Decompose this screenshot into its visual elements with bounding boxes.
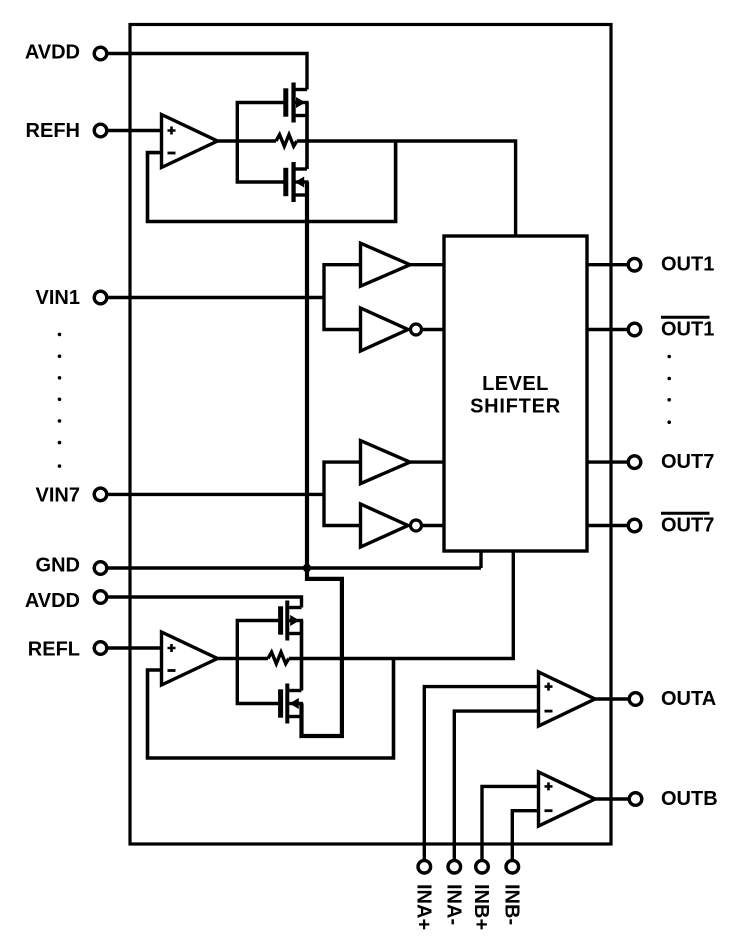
wire REFL to op-amp U2 + input bbox=[108, 646, 162, 649]
wire AVDD to PMOS drain bbox=[108, 54, 308, 90]
transistor Q3 (PMOS, REFL buffer) bbox=[278, 601, 303, 641]
wire U2 gate drive to Q3/Q4 gates bbox=[237, 621, 278, 704]
wire REFL buffer output node vertical bbox=[300, 621, 304, 691]
op-amp U2 (REFL buffer) bbox=[162, 632, 218, 685]
pin OUT1-bar bbox=[587, 317, 714, 340]
junction dot GND node bbox=[303, 564, 311, 572]
svg-text:OUTB: OUTB bbox=[661, 788, 718, 810]
pin VIN7 bbox=[36, 485, 107, 507]
svg-text:VIN1: VIN1 bbox=[36, 287, 80, 309]
pin INB- bbox=[501, 860, 523, 925]
wire B1 output to level shifter bbox=[410, 263, 444, 266]
wire REFH to op-amp U1 + input bbox=[108, 129, 162, 132]
svg-text:INA-: INA- bbox=[443, 884, 465, 925]
wire GND to Q4 source bbox=[302, 568, 342, 736]
pin INA+ bbox=[413, 860, 435, 930]
wire U2 feedback loop bbox=[148, 659, 394, 759]
pin INA- bbox=[443, 860, 465, 925]
pin OUT7 bbox=[587, 451, 714, 473]
svg-text:INA+: INA+ bbox=[413, 884, 435, 930]
pin INB+ bbox=[470, 860, 492, 930]
inverter B2 (VIN1 inverting) bbox=[361, 308, 422, 351]
pin REFL bbox=[28, 639, 107, 661]
pin AVDD (top) bbox=[25, 42, 107, 64]
svg-text:INB-: INB- bbox=[501, 884, 523, 925]
pin VIN1 bbox=[36, 287, 107, 309]
svg-text:AVDD: AVDD bbox=[25, 42, 80, 64]
resistor R1 bbox=[276, 135, 297, 147]
svg-text:OUT7: OUT7 bbox=[661, 515, 714, 537]
wire U2 output to resistor R2 bbox=[218, 657, 269, 660]
svg-text:GND: GND bbox=[36, 554, 80, 576]
pin OUTB bbox=[595, 788, 718, 810]
wire U1 output to resistor R1 bbox=[218, 139, 277, 142]
wire GND rail bbox=[108, 566, 482, 569]
buffer B3 (VIN7 non-inverting) bbox=[361, 441, 411, 484]
wire VIN1 buffer input tee bbox=[324, 265, 360, 330]
svg-text:VIN7: VIN7 bbox=[36, 485, 80, 507]
wire U1 gate drive to Q1/Q2 gates bbox=[237, 103, 283, 183]
svg-text:OUTA: OUTA bbox=[661, 688, 716, 710]
op-amp U3 (OUTA) bbox=[539, 672, 596, 726]
svg-text:LEVEL: LEVEL bbox=[482, 373, 549, 395]
wire R2 node to level shifter bottom bbox=[289, 551, 514, 659]
transistor Q4 (NMOS, REFL buffer) bbox=[278, 684, 303, 724]
resistor R2 bbox=[268, 652, 289, 664]
svg-text:REFH: REFH bbox=[26, 120, 80, 142]
wire VIN7 to buffer inputs bbox=[108, 493, 325, 496]
pin REFH bbox=[26, 120, 107, 142]
svg-text:INB+: INB+ bbox=[470, 884, 492, 930]
svg-text:SHIFTER: SHIFTER bbox=[470, 396, 561, 418]
wire B2 output to level shifter bbox=[422, 328, 445, 331]
pin OUTA bbox=[595, 688, 716, 710]
wire U1 feedback loop bbox=[148, 141, 396, 222]
buffer B1 (VIN1 non-inverting) bbox=[361, 243, 411, 286]
wire B4 output to level shifter bbox=[422, 524, 445, 527]
inverter B4 (VIN7 inverting) bbox=[361, 504, 422, 547]
svg-text:OUT7: OUT7 bbox=[661, 451, 714, 473]
wire INA- to U3 - input bbox=[454, 711, 538, 860]
wire INB+ to U4 + input bbox=[482, 786, 539, 860]
pin OUT1 bbox=[587, 254, 714, 276]
op-amp U1 (REFH buffer) bbox=[162, 115, 218, 168]
level shifter block bbox=[444, 236, 587, 551]
pin GND bbox=[36, 554, 107, 576]
ellipsis dots (left, VIN1..VIN7) bbox=[58, 333, 62, 468]
pin AVDD (bottom) bbox=[25, 590, 107, 612]
IC outer block border bbox=[130, 25, 611, 845]
svg-text:REFL: REFL bbox=[28, 639, 80, 661]
wire REFH buffer output node vertical bbox=[305, 103, 309, 569]
wire VIN1 to buffer inputs bbox=[108, 296, 325, 299]
wire AVDD to Q3 drain bbox=[108, 597, 302, 608]
wire VIN7 buffer input tee bbox=[324, 462, 360, 525]
wire GND to level shifter bottom bbox=[479, 551, 482, 568]
pin OUT7-bar bbox=[587, 513, 714, 536]
svg-text:AVDD: AVDD bbox=[25, 590, 80, 612]
svg-text:OUT1: OUT1 bbox=[661, 319, 714, 341]
wire B3 output to level shifter bbox=[410, 460, 444, 463]
op-amp U4 (OUTB) bbox=[539, 772, 596, 826]
wire INB- to U4 - input bbox=[512, 811, 538, 861]
transistor Q2 (NMOS, REFH buffer) bbox=[283, 162, 308, 202]
wire INA+ to U3 + input bbox=[424, 687, 538, 861]
ellipsis dots (right, OUT1..OUT7) bbox=[667, 355, 671, 424]
transistor Q1 (PMOS, REFH buffer) bbox=[283, 83, 308, 123]
wire R1 node to level shifter top bbox=[297, 141, 516, 236]
svg-text:OUT1: OUT1 bbox=[661, 254, 714, 276]
